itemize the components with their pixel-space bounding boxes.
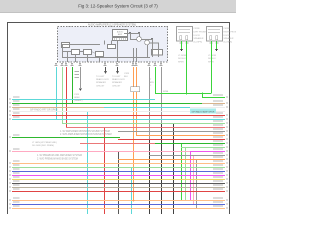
amplifier internal pin row bbox=[113, 38, 128, 41]
wire green row 137 left bbox=[12, 137, 120, 139]
terminator arrow gray x80 bbox=[79, 89, 82, 92]
wire red v x66 bbox=[66, 67, 68, 128]
node C328 text block bbox=[74, 94, 83, 102]
wire green v x202 bus drop bbox=[202, 93, 204, 98]
junction dot amp1 bbox=[129, 32, 131, 34]
wire orange row 135 bbox=[136, 135, 225, 137]
wire off-page arrow stub x105 bbox=[105, 67, 107, 71]
speaker left front door speaker inner pins bbox=[178, 30, 190, 40]
wire ltorange row 208 bbox=[12, 208, 225, 210]
wire green row 97 bbox=[202, 97, 225, 99]
wire pink v x193 lower bbox=[193, 155, 195, 204]
wire yellow row 179 bbox=[12, 179, 225, 181]
svg-text:DK GRN (W/O PREM): DK GRN (W/O PREM) bbox=[32, 145, 54, 147]
wire green v x72 bbox=[72, 67, 74, 104]
wire green v x181 speaker A stub bbox=[181, 41, 183, 49]
wire amp internal wire v9 bbox=[130, 33, 132, 39]
wire gray row 131 bbox=[118, 131, 225, 133]
wire amp internal wire v15 bbox=[147, 45, 149, 57]
svg-text:REAR DOOR: REAR DOOR bbox=[96, 78, 109, 81]
svg-text:GRN: GRN bbox=[149, 82, 154, 84]
junction bus drop bbox=[202, 93, 204, 95]
wire amp internal wire v10 bbox=[139, 33, 141, 37]
wire cyan row 99 bbox=[12, 99, 155, 101]
svg-text:2. W/O PREMIUM AND BASE SYST: 2. W/O PREMIUM AND BASE SYSTEM bbox=[37, 157, 78, 160]
wire red row 191 bbox=[12, 191, 225, 193]
wire amp internal wire v6 bbox=[104, 41, 106, 45]
wire orange v x136 bbox=[136, 67, 138, 136]
svg-text:AUDIO: AUDIO bbox=[117, 31, 124, 34]
speaker right front door speaker pin number labels bbox=[210, 42, 219, 45]
svg-text:TO LEFT: TO LEFT bbox=[96, 76, 105, 78]
svg-text:SPEAKER: SPEAKER bbox=[112, 81, 122, 84]
svg-text:Fig 3: 12-Speaker System Circu: Fig 3: 12-Speaker System Circuit (3 of 7… bbox=[78, 4, 158, 9]
svg-text:12: 12 bbox=[149, 85, 152, 87]
svg-text:CIRCUIT: CIRCUIT bbox=[112, 85, 121, 87]
svg-text:AMP: AMP bbox=[118, 33, 123, 36]
amplifier internal block B6 bbox=[152, 50, 163, 56]
svg-text:C328: C328 bbox=[74, 94, 80, 96]
svg-text:LT GRN (W/ PREM SND): LT GRN (W/ PREM SND) bbox=[32, 142, 57, 144]
pin tick 1 bbox=[114, 38, 116, 41]
wire ltgreen row 167 bbox=[12, 167, 225, 169]
wire white row 111 bbox=[12, 111, 225, 113]
wire green row 103 left bbox=[12, 103, 202, 105]
wire amp internal wire v5 bbox=[99, 57, 101, 63]
junction dot amp3 bbox=[151, 38, 153, 40]
svg-text:LT: LT bbox=[149, 79, 152, 81]
wire gray v x161 upper bbox=[161, 67, 163, 124]
wire green v x186 speaker A bbox=[186, 41, 188, 94]
wire ltgreen v x185 lower bbox=[185, 147, 187, 200]
svg-text:C428F: C428F bbox=[224, 28, 231, 30]
wire red row 143 left bbox=[80, 143, 155, 145]
wire gray v x80 bbox=[80, 67, 82, 88]
amplifier internal block B5 bbox=[108, 45, 116, 49]
off-page label text 1 bbox=[96, 76, 109, 87]
wire black v x173 bbox=[173, 123, 175, 214]
wire ltorange row 163 bbox=[12, 163, 225, 165]
speaker left front door speaker lower note text bbox=[178, 55, 186, 63]
speaker left front door speaker pin number labels bbox=[180, 42, 189, 45]
wire amp internal wire v13 bbox=[133, 48, 135, 62]
pin tick 4 bbox=[120, 38, 122, 41]
svg-text:DK BLU: DK BLU bbox=[208, 58, 216, 60]
wire gray v x118 bbox=[118, 151, 120, 214]
note block mid 1 bbox=[60, 130, 112, 136]
svg-text:LEFT FRONT: LEFT FRONT bbox=[194, 31, 208, 33]
terminator arrow spkA x181 bbox=[180, 49, 183, 52]
wire green v x216 speaker B stub bbox=[216, 41, 218, 49]
wire blue row 171 bbox=[12, 171, 225, 173]
wire gray row 155 bbox=[149, 155, 225, 157]
wire off-page arrow stub x117 bbox=[117, 67, 119, 71]
amplifier internal block B4 bbox=[96, 52, 104, 57]
wire amp internal wire h3 bbox=[124, 33, 139, 35]
svg-text:S/P RADIO AMP SPKR: S/P RADIO AMP SPKR bbox=[192, 111, 215, 114]
svg-text:BLK: BLK bbox=[124, 76, 129, 78]
wire orange v x133 bbox=[133, 67, 135, 201]
svg-text:SPKR: SPKR bbox=[178, 61, 184, 63]
wire amp internal wire v14 bbox=[136, 48, 138, 62]
svg-text:DOOR: DOOR bbox=[224, 35, 231, 37]
off-page label text 2 bbox=[112, 76, 125, 87]
wire amp internal wire h4 bbox=[130, 39, 137, 41]
node wire tag x80 bbox=[75, 71, 80, 78]
node pin label x150 bbox=[149, 79, 154, 87]
wire amp internal wire v1 bbox=[62, 44, 64, 57]
wire green v x211 speaker B bbox=[211, 41, 213, 94]
wire ltorange row 200 bbox=[12, 200, 225, 202]
svg-text:LT GRN/: LT GRN/ bbox=[178, 55, 186, 57]
wire ltgreen v x62 bbox=[62, 67, 64, 124]
notes bottom-middle bbox=[37, 154, 82, 160]
wire amp internal wire v12 bbox=[158, 43, 160, 58]
svg-text:1. W/ AMPLIFIED MONSOON SOUND: 1. W/ AMPLIFIED MONSOON SOUND SYSTEM bbox=[60, 130, 110, 133]
wire green S234 link bbox=[155, 93, 211, 95]
svg-text:C328: C328 bbox=[124, 73, 130, 75]
speaker left front door speaker box bbox=[177, 27, 193, 42]
amplifier internal block B3 bbox=[84, 50, 92, 55]
header bottom edge bbox=[0, 12, 236, 13]
wire green row 143 right bbox=[155, 143, 225, 145]
wire amp internal wire h7 bbox=[62, 51, 72, 53]
wire tan row 103 right bbox=[202, 103, 225, 105]
amplifier internal block B2 bbox=[72, 50, 80, 55]
speaker right front door speaker lower note text bbox=[208, 55, 216, 63]
speaker left front door speaker side text bbox=[194, 28, 208, 44]
wire pink row 151 left bbox=[12, 151, 190, 153]
wire amp internal wire v11 bbox=[152, 39, 154, 57]
amplifier U1 dashed box bbox=[58, 27, 168, 63]
node text block x128 bbox=[124, 73, 130, 78]
svg-text:(12-SPK): (12-SPK) bbox=[194, 42, 203, 44]
svg-text:CIRCUIT: CIRCUIT bbox=[96, 85, 105, 87]
right wire labels bbox=[213, 95, 228, 209]
svg-text:(W/AMP): (W/AMP) bbox=[74, 99, 83, 102]
svg-text:(12-SPK): (12-SPK) bbox=[224, 42, 233, 44]
svg-text:RIGHT FRONT: RIGHT FRONT bbox=[224, 31, 237, 33]
wire red row 127 bbox=[66, 127, 225, 129]
wire blue row 204 bbox=[12, 204, 225, 206]
wire amp internal wire h1 bbox=[62, 44, 100, 46]
wire amp internal wire h9 bbox=[92, 52, 96, 54]
wire orange row 159 bbox=[118, 159, 225, 161]
terminator arrow spkB x216 bbox=[215, 49, 218, 52]
junction S234 bbox=[186, 93, 188, 95]
svg-text:2. W/O AMPLIFIED MONSOON SOUN: 2. W/O AMPLIFIED MONSOON SOUND SYSTEM bbox=[60, 133, 112, 136]
wire green v x155 to S234 bbox=[155, 67, 157, 94]
wire graytan row 187 bbox=[12, 187, 225, 189]
svg-text:S/P RADIO FRT DR SPKR: S/P RADIO FRT DR SPKR bbox=[30, 109, 58, 112]
wire amp internal wire h5 bbox=[141, 39, 152, 41]
wire cyan v x56 bbox=[56, 67, 58, 120]
speaker right front door speaker inner pins bbox=[208, 30, 220, 40]
svg-text:LT GRN/: LT GRN/ bbox=[208, 55, 216, 57]
svg-text:1. W/ PREMIUM AND AMPLIFIED: 1. W/ PREMIUM AND AMPLIFIED SYSTEM bbox=[37, 154, 82, 157]
junction dot amp2 bbox=[138, 32, 140, 34]
pin tick 3 bbox=[118, 38, 120, 41]
node inline connector box x139 bbox=[131, 87, 140, 92]
wire dkgray row 183 bbox=[12, 183, 225, 185]
wire amp internal wire v3 bbox=[75, 55, 77, 63]
svg-text:SPEAKER: SPEAKER bbox=[194, 37, 204, 40]
note text under green row 139 bbox=[32, 142, 57, 147]
header bar bbox=[0, 0, 236, 13]
wire ltgreen row 123 bbox=[62, 123, 225, 125]
wire cyan row 107 mid bbox=[104, 107, 190, 109]
wire amp internal wire v2 bbox=[67, 51, 69, 62]
wire amp internal wire v4 bbox=[87, 55, 89, 63]
pin tick 6 bbox=[125, 38, 127, 41]
wire green v x181 lower bbox=[181, 143, 183, 200]
frame border bbox=[8, 23, 230, 215]
svg-text:SPEAKER: SPEAKER bbox=[96, 81, 106, 84]
wire amp internal wire h6 bbox=[149, 42, 158, 44]
svg-text:TO LEFT: TO LEFT bbox=[112, 76, 121, 78]
wire magenta v x190 lower bbox=[190, 151, 192, 200]
svg-text:GRAY: GRAY bbox=[74, 96, 80, 99]
wire magenta row 151 right bbox=[190, 151, 225, 153]
svg-text:C328F: C328F bbox=[194, 28, 201, 30]
svg-text:REAR DOOR: REAR DOOR bbox=[112, 78, 125, 81]
svg-text:SPEAKER: SPEAKER bbox=[224, 37, 234, 40]
wire amp internal wire v8 bbox=[117, 41, 119, 63]
wire black v x161 bbox=[161, 124, 163, 214]
transistor Q1 bbox=[137, 37, 142, 42]
pin tick 5 bbox=[123, 38, 125, 41]
transistor Q2 bbox=[145, 40, 150, 45]
node highlighted S/P RADIO label bbox=[190, 109, 216, 114]
wire gray v x196 lower bbox=[196, 159, 198, 208]
wire white row 107 right bbox=[190, 107, 225, 109]
wire ltgreen row 147 bbox=[181, 147, 225, 149]
wire pink row 175 bbox=[12, 175, 225, 177]
svg-text:S234: S234 bbox=[163, 91, 169, 93]
speaker right front door speaker box bbox=[207, 27, 223, 42]
wire amp internal wire v7 bbox=[111, 41, 113, 45]
amplifier internal block B1 bbox=[113, 30, 128, 37]
wire red v x104 bbox=[104, 127, 106, 214]
wire red row 139 right bbox=[118, 139, 225, 141]
wire cyan v x87 bbox=[87, 111, 89, 214]
wire amp internal wire h8 bbox=[80, 51, 84, 53]
svg-text:AUDIO AMPLIFIER (12-SPEAKER SY: AUDIO AMPLIFIER (12-SPEAKER SYSTEM) bbox=[88, 23, 136, 26]
wire tan row 107 left bbox=[12, 107, 104, 109]
svg-text:DK BLU: DK BLU bbox=[178, 58, 186, 60]
wire black v x149 bbox=[149, 139, 151, 214]
amplifier bottom pin labels bbox=[54, 63, 162, 66]
wire cyan row 119 bbox=[12, 119, 225, 121]
pin tick 2 bbox=[116, 38, 118, 41]
speaker right front door speaker side text bbox=[224, 28, 239, 44]
svg-text:DOOR: DOOR bbox=[194, 35, 201, 37]
wire red row 115 bbox=[12, 115, 225, 117]
junction row200 bbox=[133, 200, 135, 202]
wire amp internal wire h2 bbox=[62, 57, 150, 59]
wire cyan v x131 bbox=[131, 167, 133, 214]
wire gray v x149 upper bbox=[149, 67, 151, 139]
left wire labels bbox=[9, 97, 20, 209]
amplifier internal block B7 bbox=[62, 43, 70, 48]
